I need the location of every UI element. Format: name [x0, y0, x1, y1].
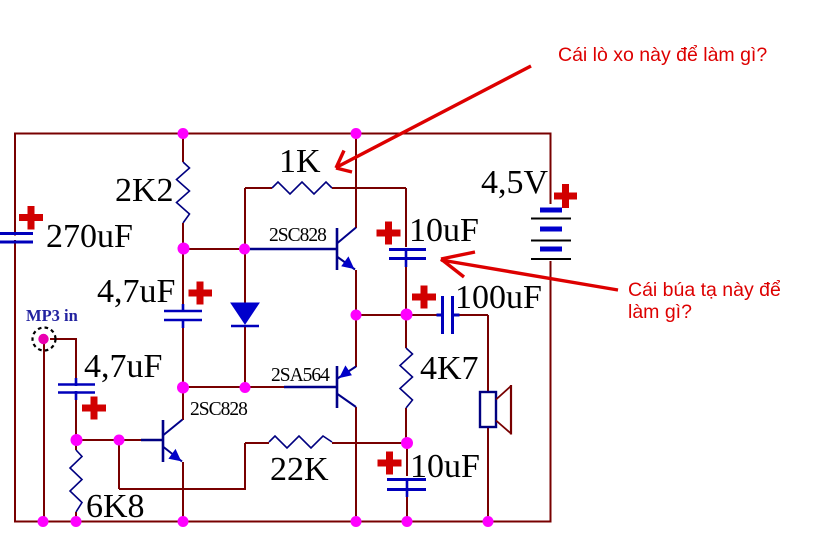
wire right border lower (from battery): [550, 261, 552, 522]
node bottom x356: [351, 516, 362, 527]
node base row x183: [178, 243, 190, 255]
capacitor C1 270uF plates: [0, 234, 33, 243]
svg-text:6K8: 6K8: [86, 488, 145, 525]
node base row x244: [239, 244, 250, 255]
wire from top border down to 2K2: [182, 133, 184, 162]
transistor Q2 2SA564: [284, 366, 356, 408]
resistor R4 22K zigzag: [269, 436, 332, 448]
polarity + for 10uF bottom: [378, 452, 402, 475]
svg-text:2SA564: 2SA564: [271, 365, 330, 386]
wire feedback bottom horizontal: [119, 488, 246, 490]
svg-text:4,7uF: 4,7uF: [84, 348, 162, 385]
node 4K7/10uF junction: [401, 437, 413, 449]
svg-text:làm gì?: làm gì?: [628, 301, 692, 323]
svg-text:100uF: 100uF: [455, 279, 542, 316]
capacitor C3 4.7uF plates (input): [58, 378, 95, 400]
wire 22K right stub to node: [332, 442, 407, 444]
wire 10uF2 bottom plate to bottom border: [406, 490, 408, 521]
speaker LS1: [480, 385, 511, 435]
polarity + for 4.7uF upper: [189, 282, 213, 305]
arrow annotation 2 to 10uF capacitor: [441, 252, 618, 290]
node bottom x43: [38, 516, 49, 527]
arrow annotation 1 to 1K resistor: [336, 66, 531, 172]
wire 10uF column upper: [405, 188, 407, 247]
capacitor C4 10uF plates (top): [389, 249, 426, 267]
wire 10uF bottom through node to 4K7 top: [405, 260, 407, 348]
svg-text:270uF: 270uF: [46, 218, 133, 255]
resistor R1 2K2 zigzag: [177, 162, 190, 223]
node bottom x488: [483, 516, 494, 527]
node Q3 base x119: [114, 435, 125, 446]
svg-text:2SC828: 2SC828: [190, 399, 247, 420]
wire 6K8 bottom to bottom border: [75, 512, 77, 521]
node bottom x76: [71, 516, 82, 527]
polarity + for battery: [554, 184, 577, 208]
svg-text:Cái búa tạ này để: Cái búa tạ này để: [628, 279, 781, 301]
node mid rail x406: [401, 309, 413, 321]
wire Q2 collector down to bottom border: [355, 407, 357, 521]
wire lower junction row horizontal: [183, 386, 285, 388]
wire 22K left stub: [245, 442, 269, 444]
wire Q3 base blue lead: [141, 439, 162, 441]
diode D1: [231, 303, 259, 326]
node Q3 base x76: [71, 434, 83, 446]
wire 4.7uF2 bottom plate to 6K8: [75, 393, 77, 450]
svg-text:4,5V: 4,5V: [481, 164, 549, 201]
svg-text:1K: 1K: [279, 143, 321, 180]
wire 2K2 bottom to 4.7uF cap: [182, 223, 184, 310]
wire node to 10uF2 top plate: [406, 443, 408, 476]
wire Q3 base row: [76, 439, 143, 441]
polarity + for 10uF top: [377, 222, 401, 245]
wire speaker column upper: [487, 315, 489, 392]
node mid rail x356: [351, 310, 362, 321]
svg-text:4K7: 4K7: [420, 350, 479, 387]
svg-text:10uF: 10uF: [409, 212, 479, 249]
capacitor C6 10uF plates (bottom): [387, 479, 426, 497]
battery BT1 4.5V: [531, 210, 571, 259]
polarity + for 270uF: [19, 206, 43, 230]
wire diode cathode down to lower junction row: [244, 327, 246, 388]
capacitor C5 100uF plates: [437, 296, 460, 334]
svg-text:Cái lò xo này để làm gì?: Cái lò xo này để làm gì?: [558, 44, 767, 66]
wire top border: [14, 133, 552, 135]
node lower row x183: [177, 382, 189, 394]
svg-text:MP3 in: MP3 in: [26, 306, 78, 325]
svg-text:2SC828: 2SC828: [269, 225, 326, 246]
transistor Q3 2SC828 (bottom): [163, 420, 183, 463]
wire left border: [14, 133, 16, 522]
resistor R2 1K zigzag: [272, 182, 332, 194]
resistor R5 6K8 zigzag: [70, 450, 82, 512]
wire speaker column lower: [487, 427, 489, 521]
node top rail x183: [178, 128, 189, 139]
wire 1K left stub: [245, 187, 272, 189]
wire top border down to Q1 collector: [355, 133, 357, 228]
wire 1K right stub to 10uF column: [332, 187, 406, 189]
wire mid rail down to Q2 emitter: [355, 315, 357, 367]
resistor R3 4K7 zigzag: [400, 348, 413, 408]
svg-text:10uF: 10uF: [410, 448, 480, 485]
wire bottom border: [14, 521, 552, 523]
node bottom x183: [178, 516, 189, 527]
wire base row Q1 horizontal: [183, 248, 248, 250]
polarity + for 100uF: [412, 286, 436, 309]
wire 1K left end down to base node and diode: [244, 188, 246, 303]
svg-text:2K2: 2K2: [115, 172, 174, 209]
wire down to 4.7uF2 top plate: [75, 339, 77, 384]
capacitor C2 4.7uF plates (upper): [164, 304, 202, 328]
wire 4.7uF cap bottom down to lower junction: [182, 321, 184, 420]
node bottom x407: [402, 516, 413, 527]
wire mid rail to 100uF: [356, 314, 441, 316]
wire Q3 emitter to bottom border: [182, 462, 184, 521]
svg-text:4,7uF: 4,7uF: [97, 273, 175, 310]
input jack MP3 (dashed circle): [33, 328, 56, 351]
node lower row x245: [240, 382, 251, 393]
polarity + for 4.7uF input: [82, 397, 106, 420]
node top rail x356: [351, 128, 362, 139]
wire jack ground down to bottom border: [43, 344, 45, 521]
svg-text:22K: 22K: [270, 451, 329, 488]
wire feedback up to Q3 base row: [118, 440, 120, 489]
node jack center: [38, 334, 48, 344]
white gap on left border inside 270uF plates: [13, 236, 18, 241]
transistor Q1 2SC828 (top): [246, 228, 356, 271]
wire jack to 4.7uF2 horizontal: [50, 338, 77, 340]
wire right border upper (to battery): [550, 133, 552, 204]
wire 4K7 bottom to node: [405, 408, 407, 444]
wire 22K left down: [244, 443, 246, 489]
wire Q1 emitter down to mid rail: [355, 270, 357, 315]
wire 100uF right plate to speaker column: [453, 314, 488, 316]
